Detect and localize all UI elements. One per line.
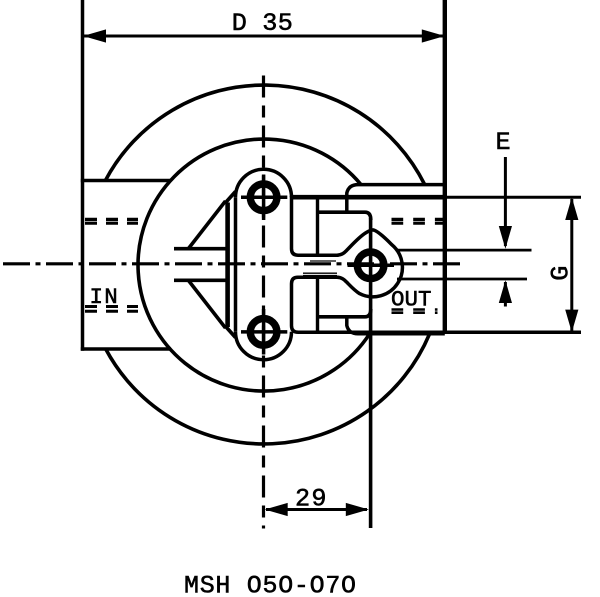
- svg-text:OUT: OUT: [391, 287, 432, 313]
- dimension E extension lines: [397, 249, 532, 252]
- dimension 29 left arrowhead: [265, 503, 288, 516]
- svg-text:D: D: [232, 9, 247, 38]
- funnel lower diagonal: [189, 281, 226, 329]
- svg-text:29: 29: [295, 485, 328, 514]
- slot top line to bolt: [318, 212, 371, 220]
- body top edge line and G top extension: [292, 195, 447, 200]
- dimension D line: [84, 35, 445, 38]
- top bolt crosshair: [241, 196, 287, 200]
- dimension D left arrowhead: [83, 29, 106, 42]
- dimension E arrow lower: [499, 280, 512, 303]
- thin bore lines bottom: [303, 272, 337, 274]
- right bolt boss outline with ear fillets: [337, 230, 402, 297]
- outer housing circle top arc: [105, 85, 424, 185]
- dimension D right arrowhead: [422, 29, 445, 42]
- IN port thread dashed lines lower pair: [85, 305, 138, 308]
- flange inner vertical bottom: [316, 277, 319, 331]
- plate bottom chamfer: [226, 327, 236, 338]
- svg-text:E: E: [496, 128, 511, 157]
- dimension 29 right arrowhead: [346, 503, 369, 516]
- right bolt crosshair horizontal: [348, 264, 395, 268]
- svg-text:MSH O5O-O7O: MSH O5O-O7O: [184, 572, 357, 597]
- IN port block bottom edge: [81, 347, 171, 351]
- OUT port block right edge / extension line: [443, 0, 447, 334]
- dimension 29 line: [266, 508, 367, 511]
- bottom bolt ring: [250, 319, 277, 346]
- body contour capsule right top with corner into clevis top line: [292, 196, 339, 255]
- dimension G line: [570, 199, 573, 331]
- outer housing circle bottom arc: [106, 334, 430, 444]
- funnel upper diagonal: [189, 201, 226, 249]
- plate edge behind capsule: [225, 203, 230, 328]
- thin bore line top: [310, 260, 336, 262]
- flange inner vertical top: [316, 199, 319, 254]
- IN port block top edge: [81, 179, 171, 183]
- bottom bolt crosshair: [241, 330, 287, 334]
- horizontal centerline: [3, 262, 466, 265]
- central bracket capsule top arc: [236, 169, 292, 197]
- dimension G bottom arrowhead: [565, 310, 578, 333]
- right bolt vertical line / 29-dim extension: [369, 218, 373, 528]
- OUT port block top edge with corner: [347, 185, 445, 213]
- svg-text:IN: IN: [90, 284, 119, 310]
- dimension G top arrowhead: [565, 197, 578, 220]
- OUT port thread dashed lines upper pair: [392, 218, 446, 221]
- right bolt ring: [357, 252, 384, 279]
- funnel lower horizontal: [174, 278, 227, 282]
- svg-text:G: G: [546, 266, 575, 281]
- top bolt ring: [250, 184, 277, 211]
- plate top chamfer: [226, 192, 236, 203]
- central bracket capsule bottom arc: [236, 332, 292, 360]
- inner housing circle (broken at OUT boss): [138, 139, 370, 391]
- OUT port block bottom edge with corner: [347, 317, 445, 334]
- vertical centerline: [262, 76, 265, 529]
- IN port block left edge / extension line: [81, 0, 85, 351]
- svg-text:35: 35: [262, 9, 293, 38]
- dimension E arrow upper: [504, 157, 507, 246]
- IN port thread dashed lines upper pair: [85, 218, 138, 221]
- slot bottom line to bolt: [318, 309, 371, 317]
- central bracket capsule left side: [234, 197, 238, 331]
- OUT port thread dashed lines lower pair: [392, 308, 438, 311]
- funnel upper horizontal: [174, 247, 227, 251]
- body contour capsule right bottom with corners and G bottom extension: [292, 277, 582, 332]
